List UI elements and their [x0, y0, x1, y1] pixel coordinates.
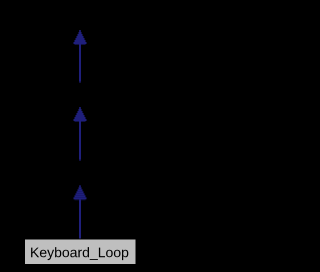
arrow 2 (middle caller edge, arrowhead steps + shaft) — [74, 107, 87, 161]
arrow 1 (top caller edge, arrowhead steps + shaft) — [74, 30, 87, 83]
arrow 3 (edge into Keyboard_Loop, arrowhead steps + shaft) — [74, 185, 87, 238]
node Keyboard_Loop — [25, 239, 137, 265]
